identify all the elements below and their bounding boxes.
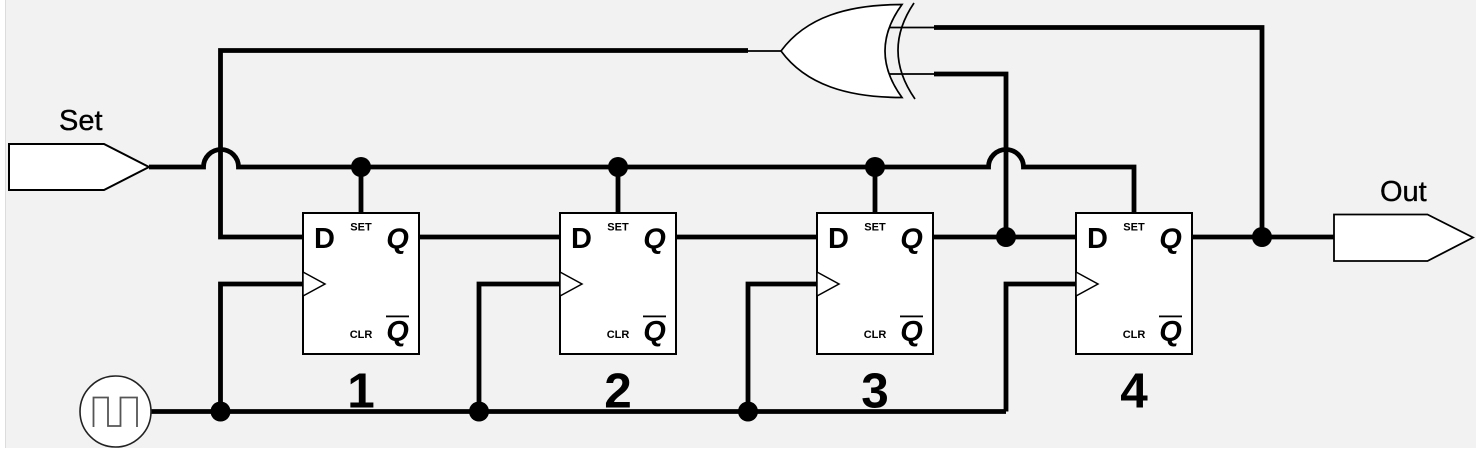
wire: clock branch to FF2 [479, 284, 560, 412]
svg-text:Q: Q [386, 316, 409, 348]
junction on clock bus at FF1 [211, 402, 231, 422]
svg-text:2: 2 [604, 364, 632, 419]
svg-text:Q: Q [900, 224, 923, 256]
svg-text:Q: Q [900, 316, 923, 348]
svg-text:Out: Out [1380, 176, 1427, 208]
svg-text:D: D [828, 223, 849, 255]
wire: Q4 to Out connector [1192, 235, 1335, 240]
junction node Q3/D4/XOR input [996, 227, 1016, 247]
D flip-flop U4 [1076, 213, 1192, 354]
junction on Set net at FF1 [351, 157, 371, 177]
svg-text:SET: SET [1123, 222, 1145, 234]
svg-text:SET: SET [350, 222, 372, 234]
wire: clock branch to FF4 [1006, 284, 1076, 412]
junction on Set net at FF2 [608, 157, 628, 177]
svg-text:Q: Q [643, 224, 666, 256]
wire: Q2 to D3 [676, 235, 817, 240]
svg-text:Q: Q [386, 224, 409, 256]
svg-text:Set: Set [59, 105, 103, 137]
svg-text:D: D [314, 223, 335, 255]
wire: Set drop to SET pin of FF1 [359, 167, 364, 213]
junction on clock bus at FF3 [738, 402, 758, 422]
D flip-flop U2 [560, 213, 676, 354]
svg-text:CLR: CLR [350, 329, 373, 341]
D flip-flop U1 [303, 213, 419, 354]
wire: Q3 to D4 [933, 235, 1076, 240]
wire: clock bus [150, 409, 1006, 414]
svg-text:3: 3 [861, 364, 889, 419]
svg-text:SET: SET [864, 222, 886, 234]
svg-text:D: D [571, 223, 592, 255]
svg-text:1: 1 [347, 364, 375, 419]
svg-text:Q: Q [1159, 316, 1182, 348]
wire: XOR upper input from Q4 node [888, 28, 1262, 238]
wire: clock branch to FF1 [221, 284, 304, 412]
svg-text:4: 4 [1120, 364, 1148, 419]
wire: feedback from XOR output to D of FF1 [221, 51, 782, 238]
svg-text:CLR: CLR [607, 329, 630, 341]
svg-text:Q: Q [1159, 224, 1182, 256]
svg-text:CLR: CLR [1123, 329, 1146, 341]
svg-text:Q: Q [643, 316, 666, 348]
wire: XOR lower input from Q3 node [888, 74, 1006, 237]
connector: Set input [9, 144, 149, 190]
svg-text:SET: SET [607, 222, 629, 234]
junction node Q4/Out/XOR input [1252, 227, 1272, 247]
wire: Set drop to SET pin of FF2 [616, 167, 621, 213]
wire: Set net with hops over crossing wires [149, 150, 1134, 214]
svg-text:CLR: CLR [864, 329, 887, 341]
wire: Set drop to SET pin of FF3 [873, 167, 878, 213]
clock source CLK [80, 376, 151, 447]
XOR gate U5 (mirrored, output at left) [781, 3, 915, 99]
wire: clock branch to FF3 [748, 284, 817, 412]
svg-text:D: D [1087, 223, 1108, 255]
junction on Set net at FF3 [865, 157, 885, 177]
D flip-flop U3 [817, 213, 933, 354]
wire: Q1 to D2 [419, 235, 560, 240]
connector: Out output [1334, 215, 1473, 262]
junction on clock bus at FF2 [469, 402, 489, 422]
